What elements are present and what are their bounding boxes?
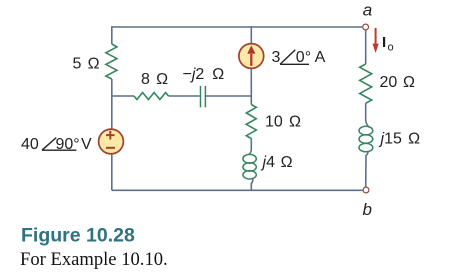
svg-text:b: b — [363, 200, 372, 219]
terminal b open circle — [363, 187, 369, 193]
svg-text:20 Ω: 20 Ω — [380, 74, 415, 91]
svg-text:8 Ω: 8 Ω — [141, 71, 168, 88]
wire top from node T1 to terminal a — [112, 26, 362, 28]
wire bottom from left to terminal b — [112, 189, 363, 191]
wire left vertical bottom segment — [111, 155, 113, 191]
svg-text:j15 Ω: j15 Ω — [379, 131, 421, 148]
wire current source to middle node and resistor 10ohm — [250, 69, 252, 104]
wire left vertical middle segment — [111, 79, 113, 129]
wire between capacitor and middle node — [206, 95, 252, 97]
svg-text:−j2 Ω: −j2 Ω — [183, 66, 225, 83]
wire left vertical top segment — [111, 26, 113, 44]
voltage source minus sign — [106, 147, 115, 149]
wire 20ohm to j15 inductor — [366, 103, 370, 127]
angle symbol for current source label — [280, 50, 309, 65]
wire j4 inductor to bottom wire — [251, 178, 253, 191]
capacitor C -j2 plates — [201, 86, 206, 108]
angle symbol for source label — [42, 138, 76, 151]
svg-text:5 Ω: 5 Ω — [73, 56, 100, 73]
terminal a open circle — [363, 24, 369, 30]
svg-text:a: a — [363, 1, 372, 20]
svg-text:Figure 10.28: Figure 10.28 — [21, 225, 135, 247]
inductor j4 coil loops — [243, 154, 256, 163]
svg-text:0° A: 0° A — [296, 49, 326, 66]
svg-text:3: 3 — [272, 49, 281, 66]
voltage source V1 circle — [99, 129, 124, 154]
wire terminal a to 20ohm — [365, 30, 367, 64]
wire between 8ohm and capacitor — [169, 95, 200, 97]
svg-text:j4 Ω: j4 Ω — [261, 154, 293, 171]
svg-text:I: I — [382, 34, 386, 51]
wire j15 inductor to terminal b — [366, 151, 368, 187]
svg-text:V: V — [81, 136, 92, 153]
wire middle horizontal left stub — [112, 95, 134, 97]
svg-text:10 Ω: 10 Ω — [265, 114, 301, 131]
svg-text:90°: 90° — [56, 136, 80, 153]
resistor R 20ohm zigzag — [360, 64, 372, 103]
svg-text:40: 40 — [21, 136, 39, 153]
arrow Io red — [375, 28, 377, 45]
inductor j15 coil loops — [359, 126, 373, 135]
wire middle branch top to current source — [250, 26, 252, 44]
resistor R 8ohm zigzag — [134, 93, 169, 100]
svg-text:o: o — [388, 42, 394, 54]
current source I1 circle — [239, 44, 264, 69]
wire 10ohm to j4 inductor — [249, 139, 252, 155]
resistor R 10ohm zigzag — [246, 105, 256, 139]
resistor R 5ohm zigzag — [106, 44, 117, 79]
svg-text:For Example 10.10.: For Example 10.10. — [20, 249, 168, 270]
voltage source plus sign — [106, 131, 115, 140]
current source arrow — [250, 54, 252, 66]
